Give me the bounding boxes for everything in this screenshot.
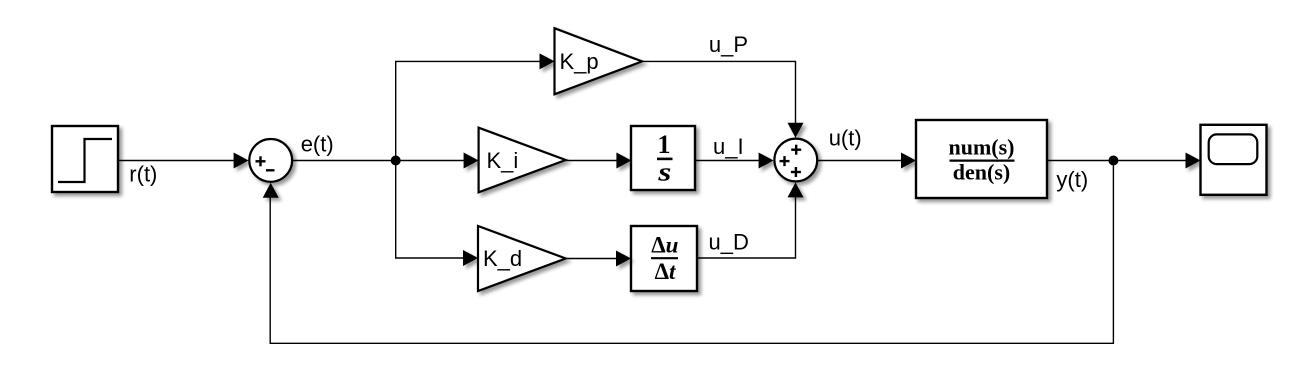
value label 1/s: [657, 130, 673, 186]
arrowhead into scope: [1186, 153, 1201, 169]
output branch junction node: [1108, 156, 1118, 166]
arrowhead into gain K_d: [463, 250, 478, 266]
svg-text:den(s): den(s): [953, 160, 1010, 185]
sum junction S1: [249, 139, 292, 182]
gain K_d triangle: [478, 226, 566, 291]
step source block (Step): [52, 126, 118, 192]
svg-text:u(t): u(t): [829, 125, 862, 150]
svg-text:s: s: [657, 158, 671, 187]
arrowhead into sum S2 top port: [788, 123, 804, 138]
arrowhead into plant block: [901, 153, 916, 169]
svg-text:y(t): y(t): [1056, 167, 1088, 192]
plant transfer function block num(s)/den(s): [916, 120, 1047, 198]
branch junction node (error signal): [391, 156, 401, 166]
svg-text:u_D: u_D: [709, 229, 749, 254]
derivative block du/dt: [631, 226, 697, 291]
svg-text:1: 1: [658, 130, 671, 159]
arrowhead into gain K_p: [540, 53, 555, 69]
arrowhead into gain K_i: [464, 153, 479, 169]
wire K_p to sum S2 top: [642, 61, 796, 124]
svg-text:Δu: Δu: [651, 232, 678, 257]
sum S2 plus sign (bottom port): [791, 167, 801, 177]
value label num(s)/den(s): [948, 135, 1014, 185]
wire sum S1 to gain K_i: [293, 160, 465, 162]
sum S2 plus sign (left port): [780, 156, 790, 166]
wire step to sum S1: [118, 160, 235, 162]
svg-text:Δt: Δt: [655, 259, 676, 284]
svg-text:u_I: u_I: [713, 134, 744, 159]
wire sum S2 to plant: [818, 160, 902, 162]
sum S2 plus sign (top port): [791, 145, 801, 155]
value label Du/Dt: [651, 232, 679, 284]
svg-text:K_d: K_d: [483, 246, 522, 271]
svg-text:num(s): num(s): [948, 135, 1014, 160]
arrowhead into derivative block: [616, 251, 631, 267]
gain K_p triangle: [555, 28, 643, 94]
wire integrator to sum S2: [695, 160, 760, 162]
wire branch up to gain K_p: [396, 61, 541, 160]
scope block: [1201, 125, 1267, 195]
svg-text:K_i: K_i: [487, 148, 519, 173]
arrowhead into sum S1 bottom port: [263, 183, 279, 198]
feedback wire to sum S1 bottom: [270, 161, 1113, 344]
arrowhead into sum S2 bottom port: [788, 182, 804, 197]
svg-text:K_p: K_p: [560, 49, 599, 74]
sum S1 minus sign (bottom port): [266, 169, 275, 171]
arrowhead into sum S1 left port: [234, 153, 249, 169]
wire branch down to gain K_d: [396, 161, 464, 259]
sum S1 plus sign (left port): [256, 156, 266, 166]
arrowhead into sum S2 left port: [759, 153, 774, 169]
integrator block 1/s: [631, 126, 695, 190]
svg-text:u_P: u_P: [709, 32, 748, 57]
gain K_i triangle: [479, 128, 566, 193]
svg-text:e(t): e(t): [301, 132, 334, 157]
wire plant to scope: [1047, 160, 1187, 162]
arrowhead into integrator 1/s: [616, 153, 631, 169]
wire derivative to sum S2 bottom: [697, 196, 796, 258]
sum junction S2: [774, 139, 817, 182]
svg-text:r(t): r(t): [129, 161, 157, 186]
wire K_d to derivative block: [566, 258, 617, 260]
wire K_i to integrator 1/s: [566, 160, 618, 162]
